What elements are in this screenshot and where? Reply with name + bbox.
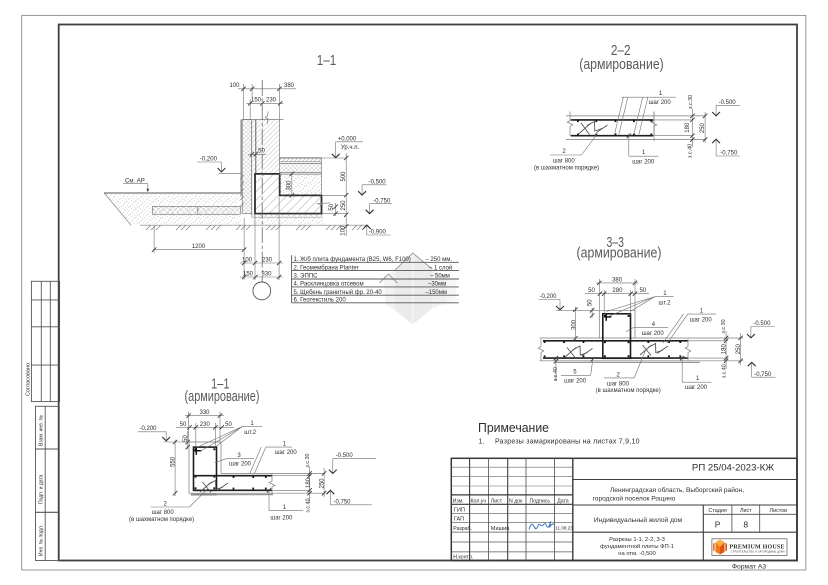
right dim lines — [685, 95, 707, 158]
right part rows — [573, 479, 797, 481]
label 2 шаг 800 — [129, 489, 208, 524]
top dims 380 / 50-280-50 — [585, 277, 649, 314]
svg-text:380: 380 — [284, 83, 295, 89]
watermark logo house — [380, 253, 457, 325]
wall concrete above foundation — [252, 120, 280, 174]
gravel band left (layer 5) — [153, 206, 241, 214]
svg-text:Разраб.: Разраб. — [453, 526, 472, 532]
level -0.500 — [712, 100, 740, 116]
slab outline — [221, 472, 325, 474]
svg-text:50: 50 — [183, 435, 189, 442]
svg-text:380: 380 — [612, 277, 623, 283]
svg-text:50: 50 — [588, 288, 595, 294]
svg-text:шаг 200: шаг 200 — [690, 318, 713, 324]
right dim column — [322, 153, 349, 236]
svg-text:Разрезы 1-1, 2-2, 3-3: Разрезы 1-1, 2-2, 3-3 — [609, 537, 665, 543]
axis centerline — [261, 80, 263, 282]
svg-text:(армирование): (армирование) — [185, 389, 260, 405]
wall: geomembrane — [240, 120, 242, 197]
svg-text:з.с.40: з.с.40 — [688, 144, 694, 158]
svg-text:180: 180 — [685, 122, 691, 133]
svg-text:Инв. № подл.: Инв. № подл. — [39, 525, 45, 556]
svg-text:(в шахматном порядке): (в шахматном порядке) — [534, 165, 599, 171]
wall rebar cage — [194, 447, 217, 490]
soil stipple left — [106, 194, 241, 224]
right dim lines — [721, 319, 743, 378]
level -0,200 — [197, 156, 241, 173]
svg-text:Формат А3: Формат А3 — [732, 563, 767, 570]
svg-text:СТРОИТЕЛЬСТВО И ЗАГОРОДНЫЕ: СТРОИТЕЛЬСТВО И ЗАГОРОДНЫЕ ДОМА — [731, 551, 785, 554]
svg-text:шаг 800: шаг 800 — [152, 510, 175, 516]
label 1 шаг 200 bottom — [267, 488, 303, 521]
svg-text:500: 500 — [341, 171, 347, 182]
label 1 шаг 200 bottom — [627, 134, 659, 166]
svg-text:з.с.30: з.с.30 — [688, 95, 694, 109]
membrane gray — [191, 494, 273, 496]
bottom rebar — [571, 135, 653, 137]
svg-text:-0,750: -0,750 — [720, 151, 738, 157]
svg-text:Мишин: Мишин — [491, 526, 510, 532]
svg-text:-0,200: -0,200 — [540, 294, 558, 300]
svg-text:шаг 800: шаг 800 — [607, 381, 630, 387]
top dims 330 / 50-230-50 — [176, 410, 234, 447]
column rebar cage — [603, 314, 631, 359]
bar mark cross — [194, 447, 201, 454]
svg-text:з.с.30: з.с.30 — [305, 453, 311, 467]
svg-text:230: 230 — [266, 98, 277, 104]
50 dim small right — [317, 203, 338, 216]
cage dots — [195, 448, 216, 489]
svg-text:Н.контр.: Н.контр. — [453, 555, 473, 561]
svg-text:-0.500: -0.500 — [719, 100, 737, 106]
svg-text:-0,200: -0,200 — [140, 426, 158, 432]
level +0,000 — [322, 136, 364, 158]
svg-text:ГАП: ГАП — [454, 516, 464, 522]
svg-text:ГИП: ГИП — [454, 507, 465, 513]
ground surface line left — [104, 192, 240, 194]
label 2 шаг 800 — [534, 134, 599, 172]
svg-text:-0,900: -0,900 — [369, 230, 387, 236]
svg-text:шаг 200: шаг 200 — [229, 462, 252, 468]
cage corner dots — [604, 315, 630, 357]
svg-text:2. Геомембрана Planter: 2. Геомембрана Planter — [294, 265, 359, 271]
svg-text:на отм. -0,500: на отм. -0,500 — [618, 551, 655, 557]
break marks — [567, 112, 573, 137]
level -0,750 — [712, 139, 740, 157]
svg-text:шаг 200: шаг 200 — [642, 331, 665, 337]
svg-text:330: 330 — [261, 271, 272, 277]
svg-text:-0,200: -0,200 — [200, 156, 218, 162]
foundation thick outline — [255, 174, 322, 214]
svg-text:шаг 200: шаг 200 — [685, 385, 708, 391]
break marks — [538, 339, 544, 361]
level -0,200 — [138, 426, 190, 442]
svg-text:– 250 мм.: – 250 мм. — [425, 257, 452, 263]
svg-text:1.: 1. — [479, 439, 485, 446]
wall: EPPS insulation crosshatch — [242, 120, 252, 214]
svg-text:Лист: Лист — [740, 508, 752, 514]
level -0,750 — [327, 490, 372, 505]
svg-text:50: 50 — [639, 288, 646, 294]
wall top break squiggle — [265, 112, 268, 124]
level -0.500 — [329, 453, 376, 474]
svg-text:шаг 200: шаг 200 — [632, 159, 655, 165]
level -0,750 — [366, 198, 392, 213]
label 1 шаг 200 top — [615, 91, 676, 134]
svg-text:-0,750: -0,750 — [334, 499, 352, 505]
level -0,200 — [538, 294, 564, 310]
slab outline 2-2 — [566, 115, 706, 117]
svg-text:Примечание: Примечание — [478, 420, 549, 435]
level -0,750 right — [748, 362, 776, 378]
50 vertical dim — [588, 299, 595, 318]
svg-text:100: 100 — [242, 257, 253, 263]
level -0.500 right — [747, 321, 775, 338]
svg-text:шаг 200: шаг 200 — [275, 450, 298, 456]
svg-text:фундаментной плиты ФП-1: фундаментной плиты ФП-1 — [600, 543, 674, 550]
svg-text:Кол.уч: Кол.уч — [471, 498, 487, 504]
svg-text:180: 180 — [306, 477, 312, 488]
svg-text:Стадия: Стадия — [708, 508, 726, 514]
notes — [478, 420, 640, 446]
right dim lines — [305, 453, 326, 512]
bar mark cross — [604, 314, 611, 321]
label 3 шаг 200 — [215, 453, 254, 468]
svg-text:50: 50 — [329, 203, 335, 210]
wall outline — [189, 441, 221, 443]
svg-text:(в шахматном порядке): (в шахматном порядке) — [129, 517, 194, 523]
label 1 шт.2 — [197, 421, 262, 452]
left margin: approval table — [26, 281, 60, 560]
svg-text:250: 250 — [700, 122, 706, 133]
svg-text:150: 150 — [251, 98, 262, 104]
svg-text:PREMIUM HOUSE: PREMIUM HOUSE — [730, 544, 785, 550]
svg-text:Подпись: Подпись — [530, 498, 551, 504]
svg-text:1–1: 1–1 — [317, 53, 337, 69]
svg-text:250: 250 — [736, 344, 742, 355]
slab rebar — [194, 475, 273, 477]
top dim row 2: 150 / 230 — [247, 98, 284, 119]
floor layers right of wall — [279, 158, 321, 196]
svg-text:50: 50 — [258, 149, 265, 155]
svg-text:4. Расклинцовка отсевом: 4. Расклинцовка отсевом — [294, 282, 364, 288]
svg-text:8: 8 — [743, 520, 748, 530]
svg-text:РП 25/04-2023-КЖ: РП 25/04-2023-КЖ — [692, 463, 774, 474]
svg-text:Листов: Листов — [770, 508, 788, 514]
svg-text:шт.2: шт.2 — [659, 301, 672, 307]
svg-text:11.08.23: 11.08.23 — [555, 526, 573, 531]
svg-text:–150мм: –150мм — [425, 290, 447, 296]
50 vertical dim — [183, 431, 190, 449]
pit bottom hatch marks — [146, 226, 367, 231]
svg-text:Индивидуальный жилой дом: Индивидуальный жилой дом — [594, 516, 683, 524]
logo premium house — [712, 539, 787, 556]
svg-text:300: 300 — [286, 180, 292, 191]
vertical divider left table / right — [572, 458, 574, 560]
svg-text:–30мм: –30мм — [428, 282, 446, 288]
svg-text:Подп. и дата: Подп. и дата — [39, 474, 45, 504]
50 dim near wall top — [248, 149, 266, 157]
svg-text:330: 330 — [199, 410, 210, 416]
foundation concrete fill — [255, 174, 322, 214]
stirrup — [579, 122, 608, 135]
svg-text:Дата: Дата — [557, 498, 569, 504]
excavation slope — [105, 193, 132, 225]
svg-text:50: 50 — [588, 299, 594, 306]
svg-text:100: 100 — [229, 83, 240, 89]
svg-text:Ур.ч.п.: Ур.ч.п. — [341, 145, 360, 151]
svg-text:1200: 1200 — [192, 244, 206, 250]
see AR note — [123, 179, 149, 193]
svg-text:50: 50 — [180, 422, 187, 428]
svg-text:з.с.40: з.с.40 — [553, 367, 559, 381]
slab outline 3-3 — [540, 337, 744, 339]
svg-text:230: 230 — [262, 257, 273, 263]
left table rows — [451, 466, 573, 468]
legend list — [292, 255, 459, 303]
svg-text:– 1 слой: – 1 слой — [429, 264, 452, 271]
svg-text:– 50мм: – 50мм — [430, 274, 450, 280]
break right — [269, 474, 275, 496]
svg-text:Ленинградская область, Выборгс: Ленинградская область, Выборгский район, — [610, 486, 744, 494]
slab rebar — [543, 340, 688, 342]
svg-text:550: 550 — [171, 456, 177, 467]
svg-text:180: 180 — [721, 344, 727, 355]
svg-text:300: 300 — [571, 319, 577, 330]
bottom dims — [152, 197, 283, 281]
svg-text:250: 250 — [341, 200, 347, 211]
label 4 шаг 200 — [626, 322, 668, 337]
membrane protection dashes — [240, 175, 244, 207]
svg-text:250: 250 — [319, 478, 325, 489]
svg-text:50: 50 — [225, 422, 232, 428]
title block — [451, 458, 797, 570]
svg-text:шаг 200: шаг 200 — [564, 379, 587, 385]
svg-text:N док: N док — [509, 498, 523, 504]
interior 300 dim — [286, 172, 294, 198]
svg-text:шт.2: шт.2 — [244, 430, 257, 436]
svg-text:Изм.: Изм. — [453, 498, 464, 504]
top rebar — [571, 119, 653, 121]
svg-text:100: 100 — [341, 225, 347, 236]
svg-text:280: 280 — [612, 288, 623, 294]
svg-text:(в шахматном порядке): (в шахматном порядке) — [596, 388, 661, 394]
left table columns — [469, 458, 471, 560]
level -0,900 — [363, 225, 390, 236]
top dim row 1: 100 / 380 — [229, 83, 296, 119]
label 2 шаг 800 — [596, 350, 661, 394]
signature — [529, 521, 555, 529]
svg-text:150: 150 — [243, 271, 254, 277]
svg-text:(армирование): (армирование) — [579, 57, 664, 73]
column concrete outline — [598, 310, 600, 338]
svg-text:(армирование): (армирование) — [577, 245, 662, 261]
pit bottom line — [140, 224, 369, 226]
svg-text:230: 230 — [200, 422, 211, 428]
svg-text:шаг 200: шаг 200 — [270, 515, 293, 521]
svg-text:Согласовано: Согласовано — [26, 363, 32, 396]
stirrup — [200, 481, 228, 493]
300 vertical dim — [571, 307, 577, 341]
svg-text:Разрезы замаркированы на лист: Разрезы замаркированы на листах 7,9,10 — [495, 439, 640, 446]
svg-text:з.с.40: з.с.40 — [306, 498, 312, 512]
rebar section dots — [577, 120, 652, 135]
svg-text:6. Геотекстиль 200: 6. Геотекстиль 200 — [294, 298, 347, 304]
level -0,500 — [358, 179, 386, 195]
svg-text:з.с.30: з.с.30 — [721, 319, 727, 333]
svg-text:Р: Р — [715, 520, 721, 530]
label 5 шаг 200 — [561, 357, 595, 384]
svg-text:3. ЭППС: 3. ЭППС — [294, 274, 319, 280]
membrane under plate (layer 2/6 band) — [252, 214, 322, 217]
stipple under plate — [252, 217, 324, 224]
svg-text:-0.500: -0.500 — [336, 453, 354, 459]
svg-text:шаг 200: шаг 200 — [649, 100, 672, 106]
axis bubble circle — [253, 282, 271, 300]
svg-text:-0,750: -0,750 — [754, 372, 772, 378]
svg-text:городской поселок Рощино: городской поселок Рощино — [593, 495, 676, 503]
svg-text:Лист: Лист — [491, 498, 503, 504]
label 1 шт.2 — [607, 291, 674, 316]
svg-text:Взам. инв. №: Взам. инв. № — [39, 415, 45, 446]
svg-text:1. Ж/б плита фундамента (В25,: 1. Ж/б плита фундамента (В25, W6, F100) — [294, 257, 411, 263]
stirrups — [565, 344, 669, 359]
svg-text:шаг 800: шаг 800 — [553, 158, 576, 164]
label 1 шаг 200 bottom right — [680, 356, 711, 391]
з.с.40 left — [553, 356, 559, 381]
svg-text:5. Щебень гранитный фр. 20-40: 5. Щебень гранитный фр. 20-40 — [294, 289, 383, 296]
label 1 шаг 200 right — [663, 309, 716, 344]
svg-text:з.с.40: з.с.40 — [721, 364, 727, 378]
label 1 шаг 200 upper right — [250, 442, 297, 474]
550 dim — [171, 440, 178, 497]
